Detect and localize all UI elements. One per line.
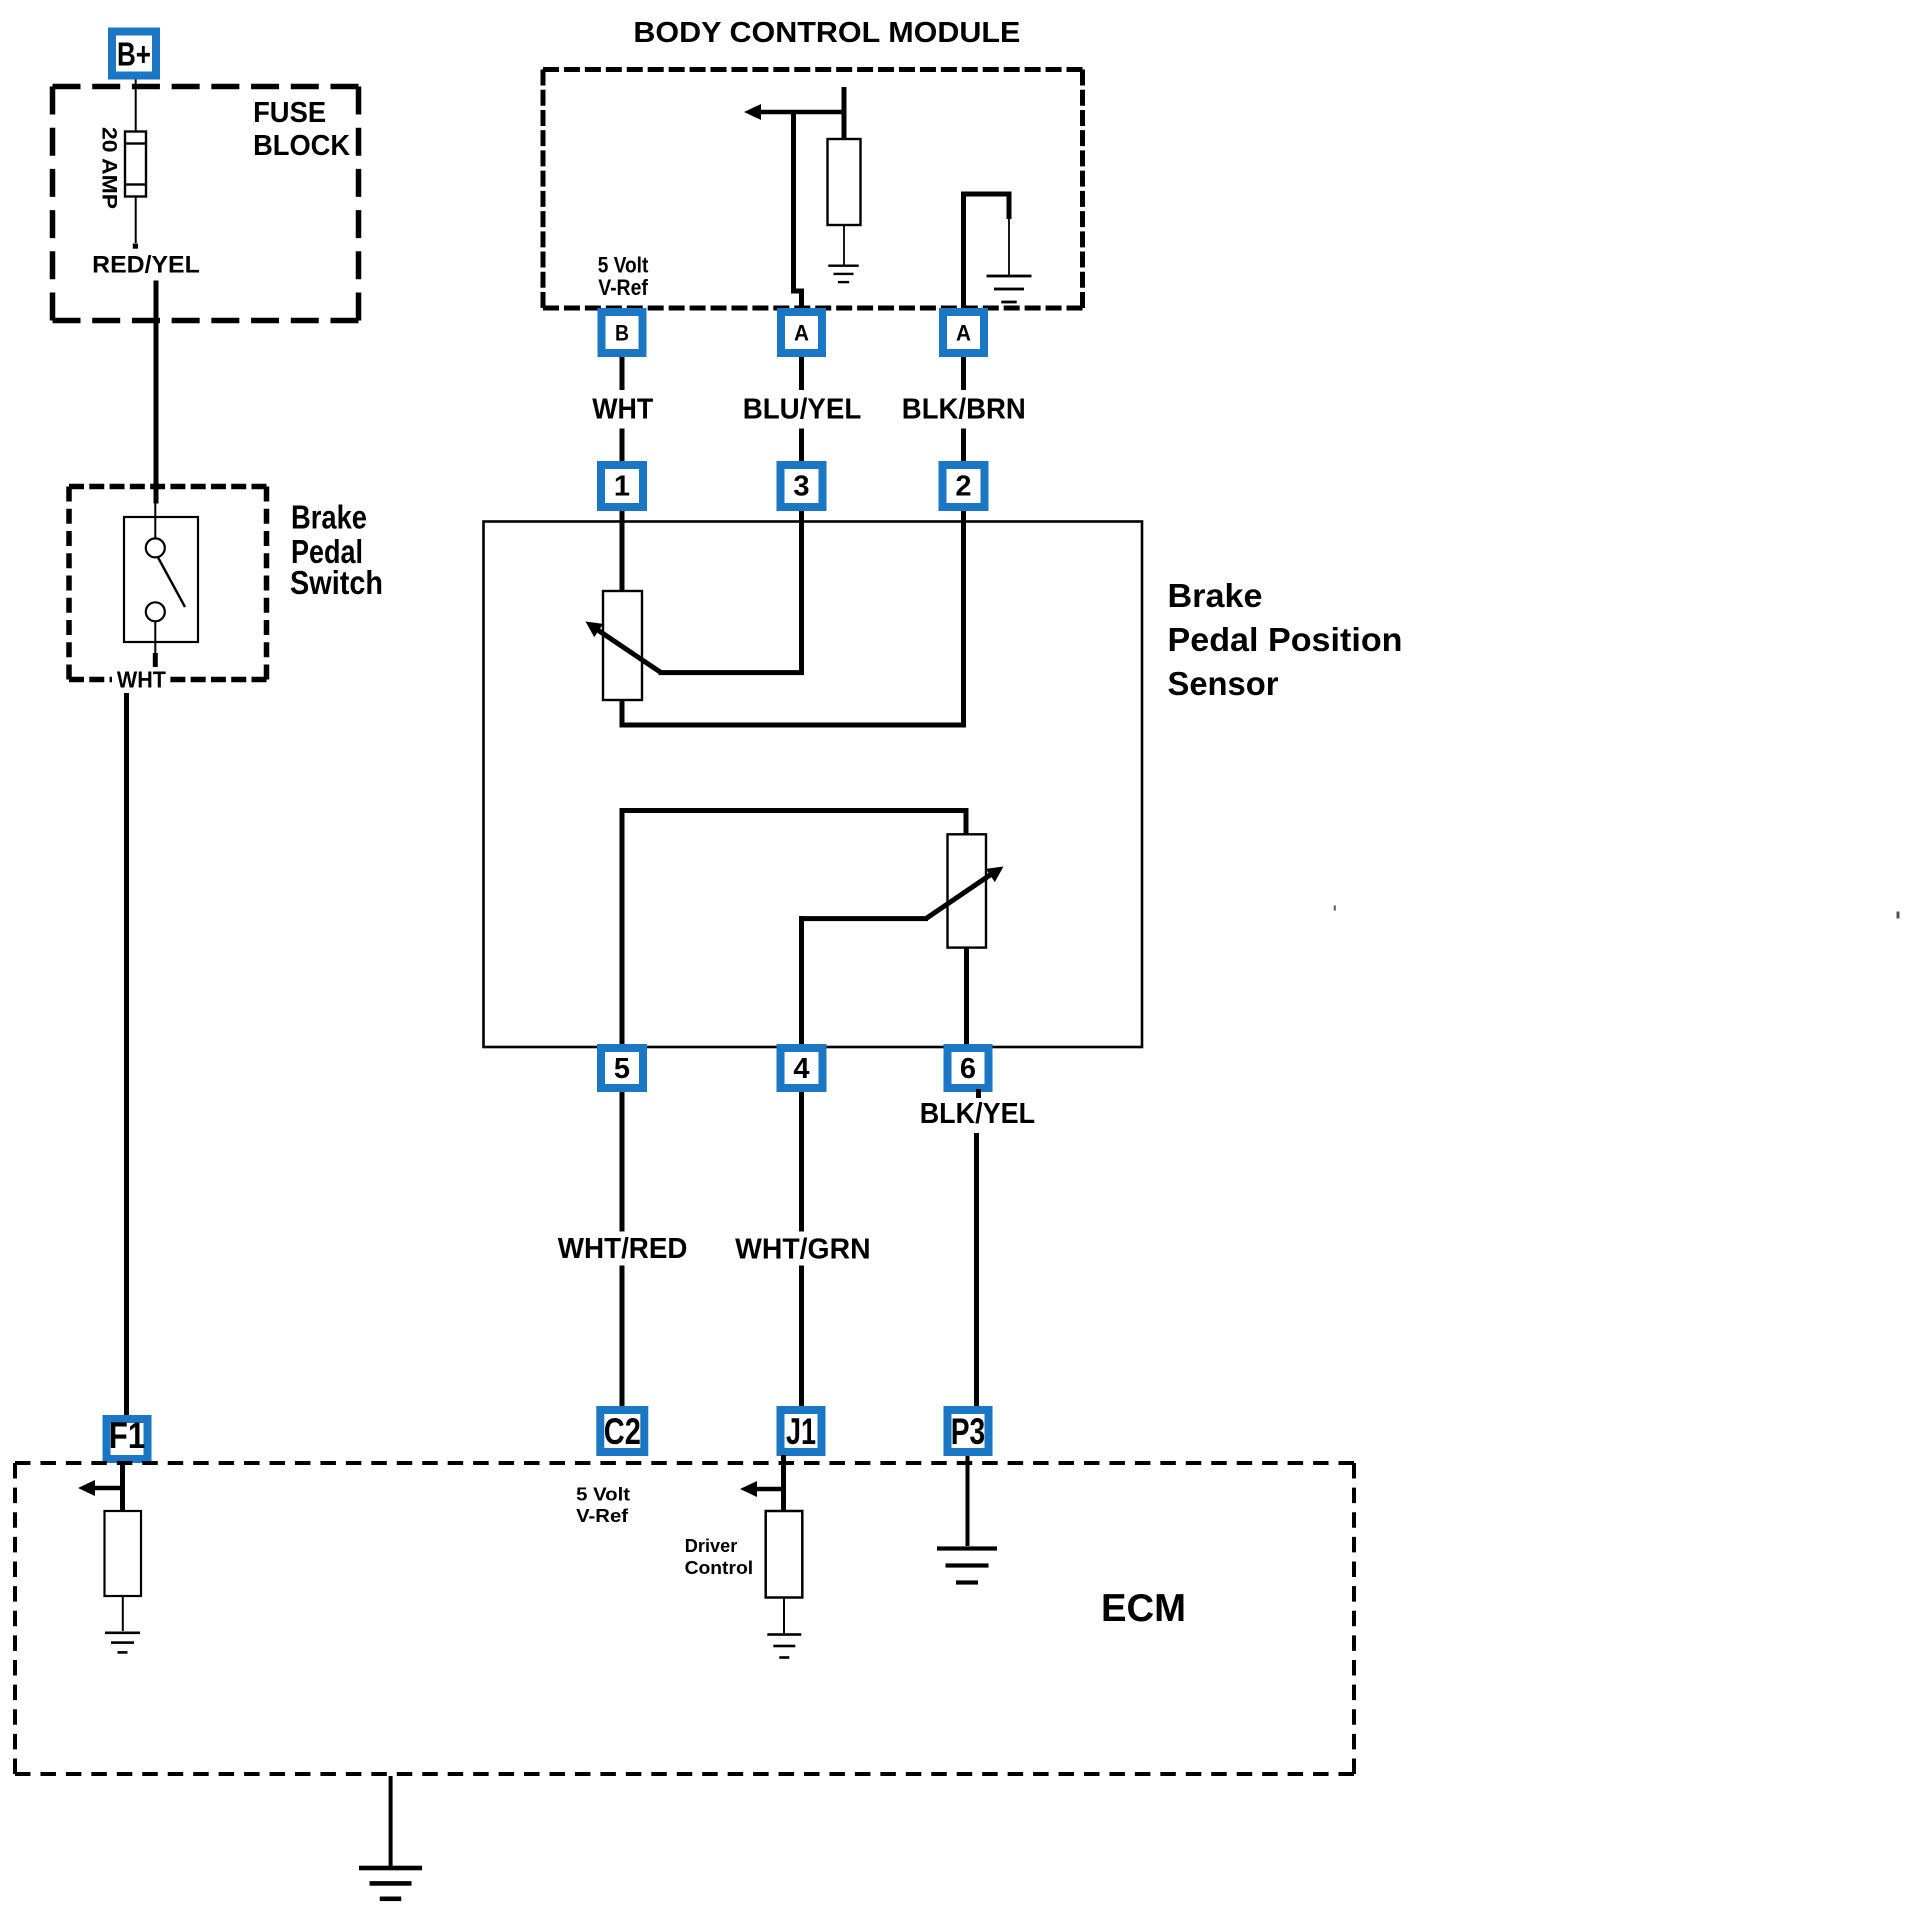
svg-text:C2: C2	[604, 1411, 641, 1452]
wire R1 bottom	[620, 700, 625, 728]
wire resistor to ground (thin)	[783, 1598, 785, 1634]
svg-text:3: 3	[793, 471, 809, 503]
BCM 5 Volt V-Ref arrow	[744, 104, 761, 120]
wire pin 5 to ECM pin C2	[620, 1092, 625, 1232]
BCM wire arrow junction down to pin B(A) with jog	[791, 112, 796, 294]
wire pin B to pin 1	[620, 357, 625, 390]
wire resistor to ground (thin)	[122, 1596, 124, 1631]
svg-text:WHT/RED: WHT/RED	[558, 1233, 688, 1265]
svg-text:2: 2	[955, 471, 971, 503]
ECM F1 branch arrow (B+ supply)	[78, 1480, 95, 1496]
svg-text:6: 6	[960, 1053, 976, 1085]
ECM F1 branch resistor	[105, 1511, 142, 1596]
svg-text:1: 1	[614, 471, 630, 503]
wire stub below pin 6	[976, 1089, 981, 1098]
connector pin 2 (sensor)	[939, 461, 989, 511]
body control module enclosure (dashed)	[543, 67, 1083, 72]
ECM F1 branch ground	[105, 1632, 140, 1635]
svg-text:BLOCK: BLOCK	[253, 130, 350, 162]
ECM wire from P3 to ground	[966, 1456, 970, 1546]
svg-text:5 Volt: 5 Volt	[598, 253, 649, 278]
connector pin A (BCM right)	[939, 308, 988, 357]
connector pin 3 (sensor)	[777, 461, 827, 511]
wire RED/YEL down to brake pedal switch	[154, 281, 159, 504]
wire pin 3 to R1 wiper	[799, 511, 804, 675]
svg-text:BODY CONTROL MODULE: BODY CONTROL MODULE	[633, 17, 1020, 49]
power node B+	[108, 28, 160, 80]
connector pin A (BCM middle)	[777, 308, 826, 357]
switch S1 contact top	[146, 538, 165, 557]
BCM ground (right)	[987, 275, 1032, 278]
wire color label WHT at switch	[112, 667, 170, 690]
wire resistor to ground (thin)	[843, 225, 845, 265]
wire B+ to fuse F 20A	[135, 80, 137, 133]
switch S1 contact bottom	[146, 602, 165, 621]
svg-text:WHT: WHT	[592, 393, 654, 425]
wire ECM case to chassis ground	[389, 1776, 393, 1866]
svg-text:ECM: ECM	[1101, 1587, 1186, 1630]
svg-text:BLK/BRN: BLK/BRN	[902, 393, 1026, 425]
connector pin J1 (ECM)	[777, 1406, 826, 1456]
switch S1 body	[124, 517, 198, 642]
svg-text:A: A	[956, 321, 971, 346]
wire fuse to node, with end dot	[135, 197, 137, 244]
svg-text:Pedal Position: Pedal Position	[1168, 621, 1403, 658]
wire switch bottom contact down	[154, 621, 156, 656]
svg-text:BLK/YEL: BLK/YEL	[920, 1098, 1035, 1130]
wire switch to ECM pin F1	[124, 693, 129, 1415]
svg-text:Driver: Driver	[685, 1535, 738, 1556]
brake pedal switch enclosure (dashed)	[69, 484, 267, 490]
switch S1 blade	[158, 557, 186, 608]
svg-text:P3: P3	[951, 1411, 986, 1452]
svg-text:J1: J1	[786, 1411, 816, 1452]
connector pin 1 (sensor)	[597, 461, 647, 511]
svg-text:A: A	[794, 321, 809, 346]
svg-text:V-Ref: V-Ref	[598, 275, 648, 300]
potentiometer R1 body	[603, 591, 642, 700]
svg-text:5 Volt: 5 Volt	[576, 1483, 630, 1504]
wire pin 1 into potentiometer R1	[620, 511, 625, 593]
BCM ground wire from pin A right	[961, 192, 966, 309]
wire pin A to pin 2	[961, 357, 966, 390]
svg-text:BLU/YEL: BLU/YEL	[743, 393, 862, 425]
svg-text:WHT: WHT	[117, 667, 166, 693]
ECM wire from F1 down	[120, 1463, 125, 1513]
fuse F 20 AMP	[125, 132, 146, 197]
svg-text:FUSE: FUSE	[253, 97, 326, 129]
connector pin P3 (ECM)	[944, 1406, 993, 1456]
wire pin 4 from R2 wiper	[799, 916, 804, 1048]
svg-text:5: 5	[614, 1053, 630, 1085]
connector pin F1 (ECM)	[103, 1415, 152, 1463]
connector pin C2 (ECM)	[596, 1406, 648, 1456]
fuse block enclosure (dashed)	[53, 84, 359, 90]
svg-text:F1: F1	[109, 1415, 146, 1456]
BCM 5V pull-up wire top stub	[842, 87, 847, 141]
ECM wire from J1 down	[781, 1455, 786, 1517]
svg-text:Brake: Brake	[291, 498, 367, 535]
potentiometer R2 body	[948, 834, 987, 947]
connector pin 4 (sensor bottom)	[777, 1044, 827, 1092]
wire pin 5 riser to potentiometer R2 top rail	[620, 808, 625, 1048]
ECM driver-control resistor	[766, 1511, 803, 1598]
svg-text:4: 4	[793, 1053, 809, 1085]
svg-text:20 AMP: 20 AMP	[98, 127, 121, 209]
connector pin B (BCM)	[598, 308, 647, 357]
ECM enclosure (dashed)	[15, 1461, 1354, 1465]
svg-text:Brake: Brake	[1168, 577, 1263, 614]
wire pin A to pin 3	[799, 357, 804, 390]
BCM pull-up resistor	[828, 139, 861, 225]
ECM J1 branch arrow (5 Volt V-Ref)	[740, 1481, 757, 1497]
connector pin 5 (sensor bottom)	[597, 1044, 647, 1092]
chassis ground below ECM	[359, 1866, 422, 1871]
wire pin 4 to ECM pin J1	[799, 1092, 804, 1232]
ECM J1 branch ground	[767, 1633, 801, 1636]
svg-text:Control: Control	[685, 1557, 754, 1578]
svg-text:Switch: Switch	[290, 564, 383, 601]
svg-text:WHT/GRN: WHT/GRN	[735, 1233, 871, 1265]
wire R2 bottom to pin 6	[964, 947, 969, 1046]
svg-text:Sensor: Sensor	[1168, 665, 1279, 702]
potentiometer R2 wiper arm	[803, 916, 929, 921]
brake pedal position sensor box	[484, 522, 1143, 1048]
stray mark artifacts	[1334, 905, 1336, 910]
BCM ground (small)	[828, 265, 859, 267]
potentiometer R1 wiper arm	[659, 670, 805, 675]
wire pin 6 to ECM pin P3	[974, 1133, 979, 1406]
connector pin 6 (sensor bottom)	[944, 1044, 993, 1092]
svg-text:B+: B+	[117, 36, 151, 73]
svg-text:B: B	[615, 321, 629, 346]
svg-text:RED/YEL: RED/YEL	[92, 252, 200, 279]
svg-text:V-Ref: V-Ref	[576, 1505, 629, 1526]
ECM P3 ground	[937, 1546, 997, 1550]
wire pin 2 to R1 bottom rail	[961, 511, 966, 728]
